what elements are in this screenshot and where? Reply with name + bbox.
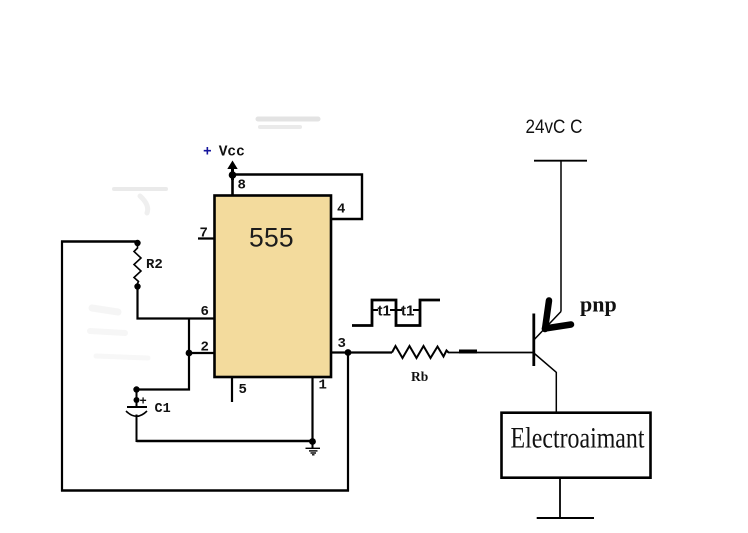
wire collector down to electromagnet xyxy=(555,372,557,413)
svg-text:R2: R2 xyxy=(146,257,163,273)
svg-text:Rb: Rb xyxy=(411,369,428,384)
node R2 bottom xyxy=(134,283,140,289)
svg-text:t1: t1 xyxy=(378,303,391,320)
Vcc supply arrow xyxy=(227,161,237,181)
wire top-left horizontal (feedback top) xyxy=(61,240,138,242)
svg-text:Electroaimant: Electroaimant xyxy=(511,422,646,455)
wire feedback vertical from pin3 node down xyxy=(347,353,349,492)
electromagnet box xyxy=(502,413,651,478)
wire electromagnet to bottom terminal xyxy=(559,478,561,519)
node pin 3 xyxy=(345,349,352,356)
pin 7 stub xyxy=(198,237,215,239)
svg-text:pnp: pnp xyxy=(580,292,617,317)
wire thick retouched segment xyxy=(459,350,477,354)
waveform t1 tick marks xyxy=(372,309,378,311)
capacitor C1 xyxy=(126,390,147,443)
wire supply down to emitter xyxy=(560,161,562,312)
svg-text:5: 5 xyxy=(239,382,247,398)
node R2 top xyxy=(134,240,140,246)
resistor R2 xyxy=(134,246,141,286)
wire R2 bottom down to pin6 line xyxy=(138,287,216,319)
svg-text:7: 7 xyxy=(200,226,208,242)
wire left vertical of loop xyxy=(61,241,63,492)
wire pin 3 out of IC xyxy=(331,351,392,353)
op-amp U1 555 timer body xyxy=(215,196,332,378)
node C1 top xyxy=(133,386,139,392)
wire pin 2 xyxy=(189,352,215,354)
svg-text:24vC C: 24vC C xyxy=(526,116,583,138)
svg-text:3: 3 xyxy=(338,336,346,352)
svg-text:6: 6 xyxy=(201,304,209,320)
wire pin 8 vertical lead xyxy=(231,174,234,196)
transistor Q1 pnp xyxy=(534,301,571,373)
bottom terminal bar xyxy=(537,517,594,519)
svg-text:+Vcc: +Vcc xyxy=(203,145,245,161)
svg-text:4: 4 xyxy=(337,202,345,218)
wire pin8 junction to pin4 (over the top, down right side) xyxy=(233,175,363,220)
wire bottom of loop xyxy=(61,489,349,491)
wire pin 1 down to ground xyxy=(311,377,313,442)
24V supply rail bar xyxy=(534,160,587,162)
resistor Rb xyxy=(392,346,449,358)
svg-text:2: 2 xyxy=(201,340,209,356)
wire Rb to transistor base xyxy=(448,352,533,354)
wire C1 bottom to ground node xyxy=(137,440,314,442)
faint scan smudges (background artifacts) xyxy=(90,119,318,358)
svg-text:1: 1 xyxy=(319,378,327,394)
wire pin2 node down and left to C1 xyxy=(137,353,190,390)
node pin8 / pin4 junction xyxy=(229,171,237,179)
svg-text:8: 8 xyxy=(238,178,246,194)
ground xyxy=(306,441,321,455)
waveform square wave xyxy=(352,300,440,326)
wire pin6 line down to pin2 node xyxy=(188,319,190,354)
svg-text:t1: t1 xyxy=(401,303,414,320)
node ground junction xyxy=(309,438,316,445)
node pin 2 xyxy=(186,350,193,357)
svg-text:555: 555 xyxy=(249,223,294,253)
pin 5 stub xyxy=(231,377,233,402)
svg-text:C1: C1 xyxy=(155,402,171,417)
